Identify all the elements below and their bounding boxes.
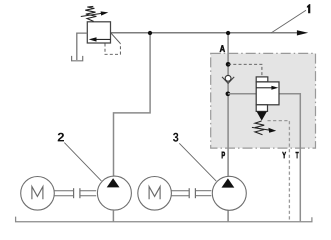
- coupling shaft motor1-pump1: [54, 190, 73, 192]
- check valve seat: [222, 77, 234, 83]
- cartridge valve U1 body: [256, 82, 279, 105]
- relief valve V1 spring: [85, 6, 96, 21]
- check valve ball: [225, 75, 231, 81]
- relief valve V1 body: [87, 22, 110, 43]
- cartridge valve U1 flow arrow: [256, 87, 272, 89]
- leader line for label 2: [64, 143, 101, 181]
- label P (port): [222, 152, 225, 158]
- valve block enclosure (manifold): [211, 53, 316, 148]
- motor M1 circle: [21, 177, 55, 211]
- coupling shaft motor2-pump2: [171, 190, 189, 192]
- pump 3 (unit 2) circle: [212, 176, 246, 210]
- pump 2 (unit 1) triangle: [107, 178, 120, 187]
- motor M2 letter M: [149, 187, 160, 200]
- label 2: [58, 133, 64, 142]
- wire: pump 1 to tank: [112, 210, 114, 222]
- wire: pump 2 to port P to port A vertical line: [227, 33, 229, 179]
- leader line for label 3: [179, 143, 216, 181]
- pilot line (dashed) to cartridge valve cap: [228, 64, 262, 77]
- label 1: [307, 4, 310, 13]
- wire: pump 2 drain to tank: [227, 210, 229, 221]
- leader line for label 1: [271, 10, 306, 33]
- pump 2 (unit 1) circle: [97, 176, 131, 210]
- label Y (port): [282, 152, 286, 158]
- pump 3 (unit 2) triangle: [222, 178, 235, 187]
- wire: branch to cartridge valve inlet: [228, 93, 256, 95]
- relief valve V1 spring adjust arrow: [81, 13, 102, 16]
- arrowhead of line 1: [297, 30, 308, 35]
- label A (port): [220, 45, 225, 51]
- node: junction on main line above pump 1: [148, 31, 152, 35]
- drain line (dashed) to port Y: [268, 121, 290, 222]
- relief valve V1 pilot line (dashed): [105, 44, 120, 55]
- cartridge valve U1 poppet (triangle): [257, 112, 267, 121]
- wire: cartridge valve outlet to port T: [279, 94, 300, 221]
- node: junction on main line at A: [226, 31, 230, 35]
- cartridge valve U1 spring adjust arrow: [252, 127, 270, 130]
- wire: relief valve to tank: [77, 33, 88, 60]
- node: branch junction to cartridge valve: [226, 91, 231, 96]
- motor M2 circle: [138, 177, 172, 211]
- tank line (reservoir): [16, 217, 312, 222]
- wire: main pressure line (outlet): [111, 32, 298, 34]
- cartridge valve U1 top cap: [256, 77, 268, 82]
- relief valve V1 flow arrow: [95, 38, 110, 40]
- node: pilot branch junction in block: [226, 62, 231, 67]
- wire: junction to pump 1: [114, 33, 151, 179]
- tank symbol under relief valve: [72, 56, 83, 61]
- cartridge valve U1 spring: [255, 121, 264, 135]
- cartridge valve U1 bottom cap: [256, 105, 267, 112]
- motor M1 letter M: [32, 187, 43, 200]
- label 3: [173, 133, 178, 142]
- label T (port): [296, 152, 299, 158]
